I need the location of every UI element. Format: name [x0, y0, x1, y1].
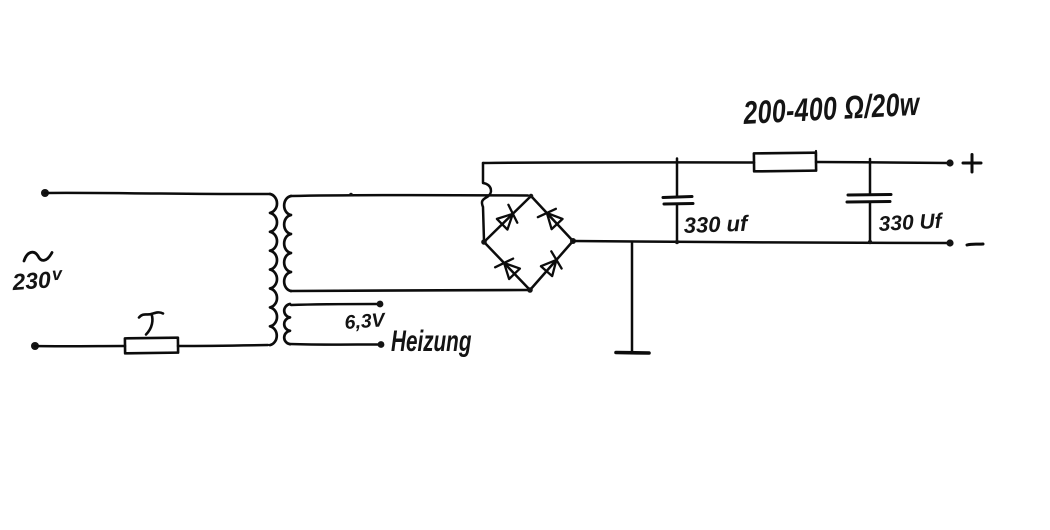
svg-text:200-400 Ω/20w: 200-400 Ω/20w — [742, 87, 923, 132]
svg-text:330 uf: 330 uf — [683, 211, 750, 238]
svg-text:330 Uf: 330 Uf — [878, 210, 944, 236]
svg-text:Heizung: Heizung — [391, 326, 472, 358]
svg-text:6,3V: 6,3V — [344, 309, 388, 334]
svg-text:v: v — [51, 264, 63, 285]
svg-text:230: 230 — [11, 266, 52, 295]
